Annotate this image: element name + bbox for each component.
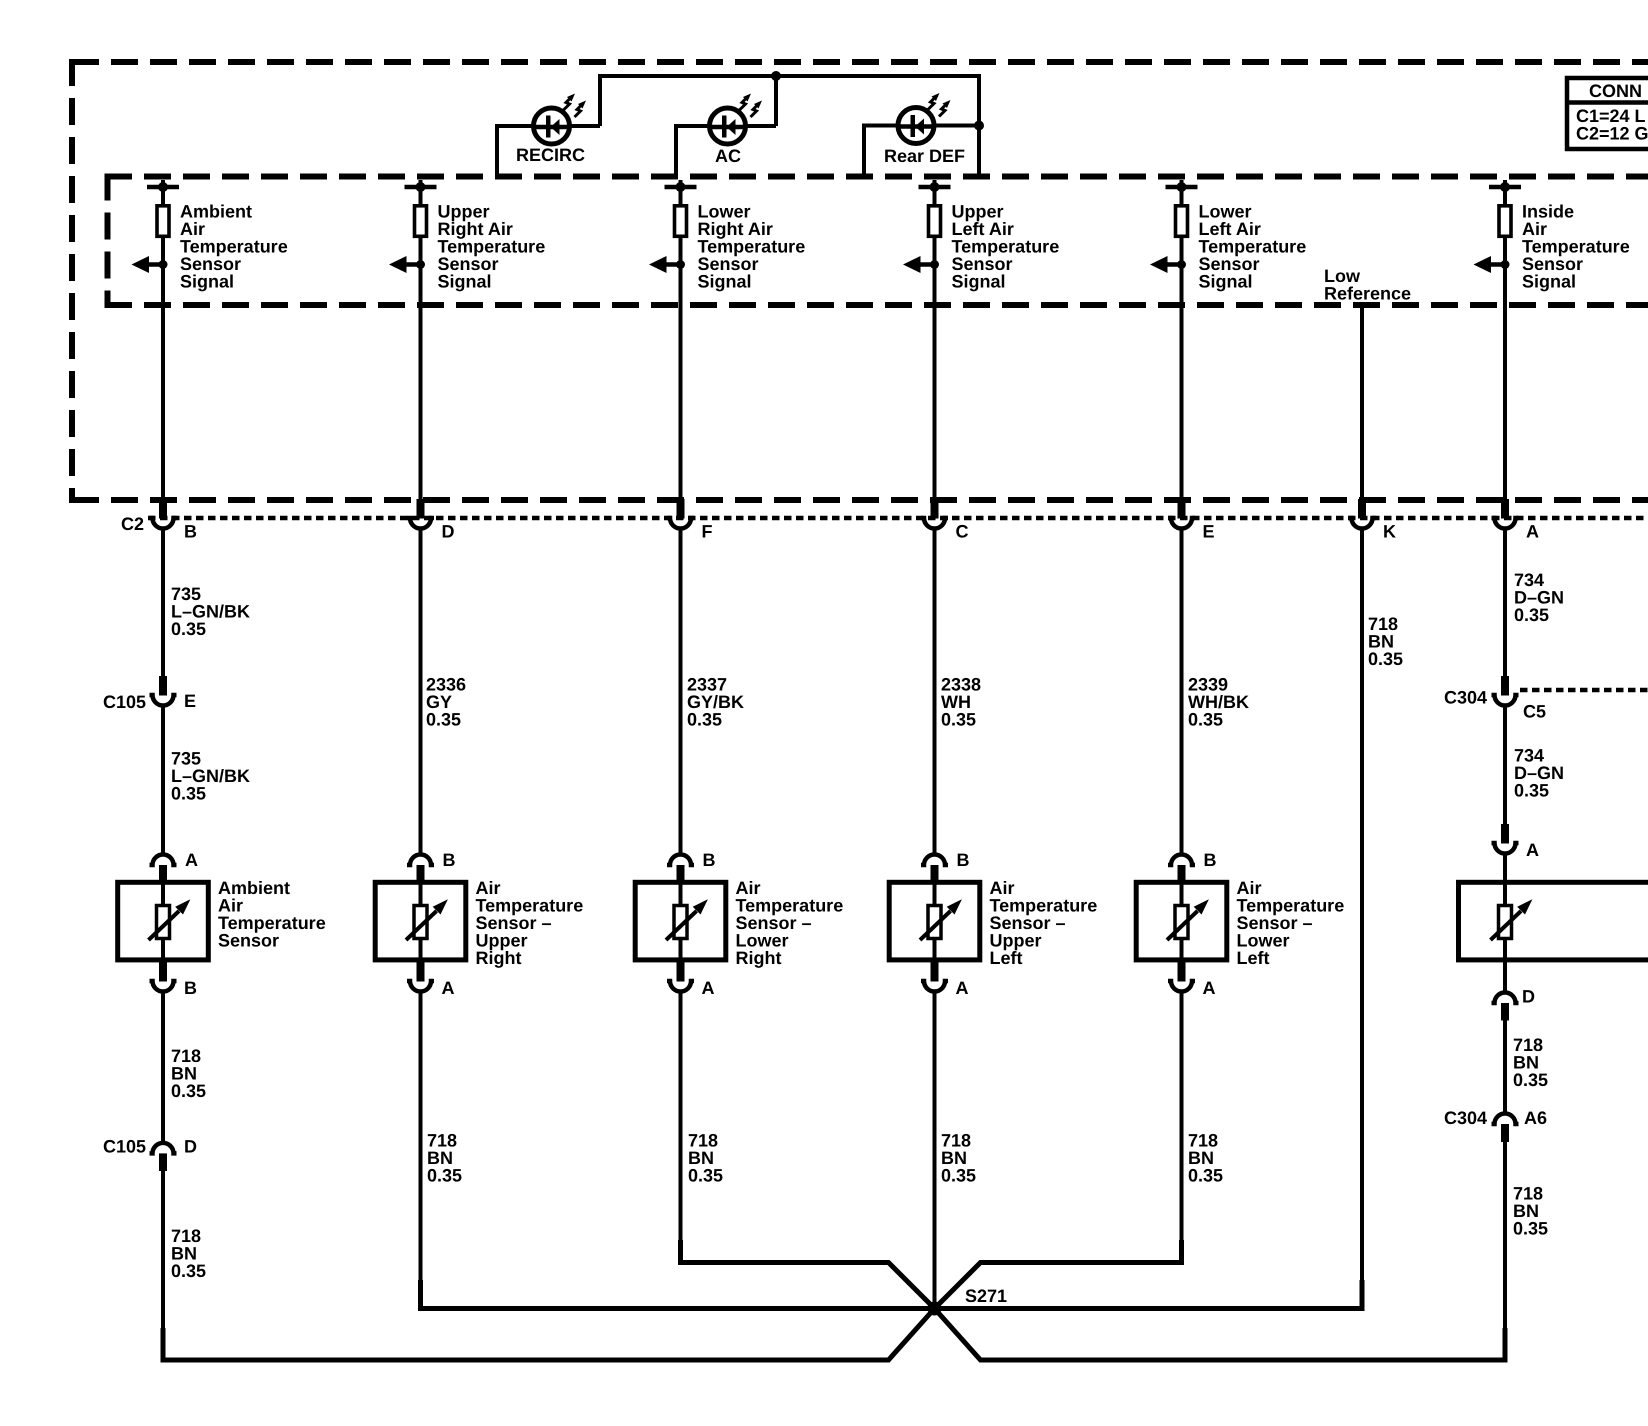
- label Ambient Air Temperature Sensor: [218, 878, 326, 951]
- svg-text:A: A: [1203, 978, 1216, 998]
- connector sensor pin B female: [921, 855, 948, 866]
- connector sensor pin A male (bottom): [677, 960, 685, 982]
- wire: [419, 186, 423, 206]
- label wire 718 BN 0.35: [427, 1131, 462, 1186]
- svg-text:Signal: Signal: [180, 272, 234, 292]
- wire inside box: [419, 884, 423, 904]
- wire: [419, 238, 423, 500]
- connector C2 pin E female: [1168, 518, 1195, 529]
- wire Rear DEF drop: [862, 124, 866, 177]
- svg-text:C5: C5: [1523, 702, 1546, 722]
- svg-text:B: B: [184, 978, 197, 998]
- svg-text:Reference: Reference: [1324, 284, 1411, 304]
- label wire 2338 WH 0.35: [941, 675, 981, 730]
- inner dashed box bottom: [105, 302, 1648, 308]
- node Upper Right Air Temperature Sensor Signal tick: [405, 180, 437, 192]
- resistor Upper Right Air Temperature Sensor Signal: [415, 206, 427, 237]
- sensor box Air Temperature Sensor - Lower Left: [1136, 882, 1227, 960]
- wire 718 segment: [161, 1171, 165, 1330]
- svg-text:B: B: [957, 850, 970, 870]
- svg-text:0.35: 0.35: [941, 1166, 976, 1186]
- connector sensor pin B male: [931, 865, 939, 882]
- sensor box Air Temperature Sensor - Upper Right: [375, 882, 466, 960]
- svg-text:0.35: 0.35: [426, 710, 461, 730]
- variable resistor Air Temperature Sensor - Lower Left: [1167, 899, 1209, 940]
- variable resistor Ambient Air Temperature Sensor: [149, 899, 191, 940]
- svg-text:B: B: [443, 850, 456, 870]
- wire Inside sensor to S271: [935, 1309, 1506, 1361]
- wire inside box: [1180, 884, 1184, 904]
- connector sensor pin B male: [677, 865, 685, 882]
- arrow Upper Right Air Temperature Sensor Signal: [389, 256, 425, 273]
- svg-text:C105: C105: [103, 692, 146, 712]
- variable resistor Air Temperature Sensor - Upper Left: [920, 899, 962, 940]
- label wire 718 BN 0.35: [1188, 1131, 1223, 1186]
- wire 718 Low Reference segment: [1360, 530, 1364, 1311]
- connector C105 pin E male: [159, 676, 167, 696]
- label Lower Right Air Temperature Sensor Signal: [698, 202, 806, 292]
- svg-text:0.35: 0.35: [171, 1081, 206, 1101]
- resistor Upper Left Air Temperature Sensor Signal: [929, 206, 941, 237]
- sensor box Inside Air Temperature Sensor: [1459, 882, 1648, 960]
- connector C2 pin K male: [1358, 499, 1366, 519]
- svg-text:Signal: Signal: [952, 272, 1006, 292]
- wire 734 segment: [1503, 530, 1507, 677]
- connector sensor pin A male (bottom): [1178, 960, 1186, 982]
- svg-text:0.35: 0.35: [171, 784, 206, 804]
- wire inside box: [161, 940, 165, 960]
- connector C304 dotted line: [1520, 688, 1648, 693]
- label wire 718 BN 0.35: [1513, 1035, 1548, 1090]
- svg-text:A: A: [185, 850, 198, 870]
- label Air Temperature Sensor - Upper Right: [476, 878, 584, 968]
- svg-text:S271: S271: [965, 1286, 1007, 1306]
- svg-text:B: B: [703, 850, 716, 870]
- wire RECIRC drop: [495, 124, 499, 176]
- connector sensor pin A female: [150, 855, 177, 866]
- svg-text:F: F: [702, 522, 713, 542]
- LED indicator AC: [710, 94, 763, 145]
- wire 718 segment: [933, 993, 937, 1309]
- CONN table divider: [1567, 100, 1648, 105]
- label Air Temperature Sensor - Upper Left: [990, 878, 1098, 968]
- connector C2 pin A female: [1492, 518, 1519, 529]
- connector C2 pin C male: [931, 499, 939, 519]
- svg-text:B: B: [184, 522, 197, 542]
- connector sensor pin B female (bottom): [150, 981, 177, 992]
- svg-text:0.35: 0.35: [688, 1166, 723, 1186]
- label wire 718 BN 0.35 (body side): [1513, 1184, 1548, 1239]
- wire Lower Right sensor to S271: [681, 1240, 935, 1309]
- connector C2 pin F female: [667, 518, 694, 529]
- wire RECIRC riser: [598, 74, 602, 126]
- connector C2 dotted line: [148, 516, 1648, 521]
- junction top bus / AC: [771, 71, 781, 81]
- wire segment: [419, 530, 423, 854]
- arrow Inside Air Temperature Sensor Signal: [1474, 256, 1510, 273]
- svg-text:Signal: Signal: [1199, 272, 1253, 292]
- sensor box Ambient Air Temperature Sensor: [118, 882, 209, 960]
- label Lower Left Air Temperature Sensor Signal: [1199, 202, 1307, 292]
- wire segment: [679, 530, 683, 854]
- inner dashed box top: [105, 174, 1648, 180]
- svg-text:E: E: [1203, 522, 1215, 542]
- wire AC right: [745, 124, 777, 128]
- wire 735 segment: [161, 530, 165, 677]
- wire into inside sensor: [1503, 855, 1507, 883]
- svg-text:0.35: 0.35: [687, 710, 722, 730]
- wire 718 segment: [1503, 1142, 1507, 1330]
- resistor Inside Air Temperature Sensor Signal: [1499, 206, 1511, 237]
- connector sensor pin A male (bottom): [931, 960, 939, 982]
- wire Low Reference: [1360, 305, 1364, 500]
- wire Rear DEF riser: [977, 74, 981, 176]
- svg-text:D: D: [184, 1137, 197, 1157]
- connector sensor pin B male: [417, 865, 425, 882]
- svg-text:0.35: 0.35: [1188, 1166, 1223, 1186]
- svg-text:0.35: 0.35: [1513, 1070, 1548, 1090]
- wire Upper Right sensor to S271: [421, 1280, 935, 1309]
- svg-text:A: A: [1526, 840, 1539, 860]
- connector C2 pin C female: [921, 518, 948, 529]
- svg-text:Left: Left: [1237, 948, 1270, 968]
- variable resistor Air Temperature Sensor - Upper Right: [406, 899, 448, 940]
- wire: [161, 238, 165, 500]
- svg-text:AC: AC: [715, 146, 741, 166]
- wire RECIRC right: [569, 124, 601, 128]
- label wire 735 L-GN/BK 0.35 (engine side): [171, 749, 250, 804]
- wire inside box: [1503, 940, 1507, 960]
- svg-text:0.35: 0.35: [171, 1261, 206, 1281]
- arrow Lower Right Air Temperature Sensor Signal: [649, 256, 685, 273]
- label Upper Left Air Temperature Sensor Signal: [952, 202, 1060, 292]
- wire inside box: [161, 884, 165, 904]
- resistor Ambient Air Temperature Sensor Signal: [157, 206, 169, 237]
- svg-text:Right: Right: [476, 948, 522, 968]
- connector C2 pin K female: [1349, 518, 1376, 529]
- wire Ambient sensor to S271: [163, 1309, 935, 1361]
- arrow Lower Left Air Temperature Sensor Signal: [1150, 256, 1186, 273]
- CONN table box: [1567, 78, 1648, 149]
- label Low Reference: [1324, 266, 1411, 304]
- resistor Lower Right Air Temperature Sensor Signal: [675, 206, 687, 237]
- wire 718 segment: [161, 993, 165, 1143]
- svg-text:A: A: [956, 978, 969, 998]
- connector C2 pin A male: [1501, 499, 1509, 519]
- variable resistor Inside Air Temperature Sensor: [1491, 899, 1533, 940]
- svg-text:C2=12 G: C2=12 G: [1576, 124, 1648, 144]
- svg-text:0.35: 0.35: [1514, 605, 1549, 625]
- svg-text:B: B: [1204, 850, 1217, 870]
- wire 735 segment 2: [161, 707, 165, 854]
- wire 718 segment: [1180, 993, 1184, 1265]
- wire: [933, 186, 937, 206]
- svg-text:Sensor: Sensor: [218, 931, 279, 951]
- sensor box Air Temperature Sensor - Upper Left: [889, 882, 980, 960]
- svg-text:0.35: 0.35: [1368, 649, 1403, 669]
- connector C105 pin D male: [159, 1153, 167, 1171]
- svg-text:K: K: [1383, 522, 1396, 542]
- label Ambient Air Temperature Sensor Signal: [180, 202, 288, 292]
- wire 734 segment 2: [1503, 707, 1507, 825]
- wire 718 segment: [419, 993, 423, 1311]
- connector sensor pin B male: [1178, 865, 1186, 882]
- LED indicator RECIRC: [534, 94, 587, 145]
- svg-text:A: A: [702, 978, 715, 998]
- label wire 734 D-GN 0.35 (body side): [1514, 746, 1564, 801]
- connector sensor pin A female (inside sensor): [1492, 843, 1519, 854]
- control module dashed box bottom: [72, 497, 1648, 503]
- connector C2 pin F male: [677, 499, 685, 519]
- connector C304 pin A6 female: [1492, 1114, 1519, 1125]
- svg-text:C2: C2: [121, 514, 144, 534]
- node Inside Air Temperature Sensor Signal tick: [1489, 180, 1521, 192]
- wire Rear DEF left: [864, 124, 899, 128]
- svg-text:CONN: CONN: [1589, 81, 1642, 101]
- label wire 734 D-GN 0.35: [1514, 570, 1564, 625]
- svg-text:A6: A6: [1524, 1108, 1547, 1128]
- label Air Temperature Sensor - Lower Left: [1237, 878, 1345, 968]
- label wire 718 BN 0.35: [941, 1131, 976, 1186]
- svg-text:0.35: 0.35: [1514, 781, 1549, 801]
- wire segment: [1180, 530, 1184, 854]
- wire inside box: [1503, 884, 1507, 904]
- svg-text:C304: C304: [1444, 688, 1487, 708]
- variable resistor Air Temperature Sensor - Lower Right: [666, 899, 708, 940]
- svg-text:E: E: [184, 691, 196, 711]
- svg-text:Signal: Signal: [438, 272, 492, 292]
- connector sensor pin B female: [407, 855, 434, 866]
- svg-text:Right: Right: [736, 948, 782, 968]
- label wire 718 BN 0.35 (engine side): [171, 1226, 206, 1281]
- wire: [679, 186, 683, 206]
- wire Rear DEF right: [933, 124, 979, 128]
- label wire 2337 GY/BK 0.35: [687, 675, 744, 730]
- wire AC riser: [774, 74, 778, 126]
- node Upper Left Air Temperature Sensor Signal tick: [919, 180, 951, 192]
- node Ambient Air Temperature Sensor Signal tick: [147, 180, 179, 192]
- label wire 2336 GY 0.35: [426, 675, 466, 730]
- wire AC drop: [674, 124, 678, 176]
- connector C105 pin E female: [150, 695, 177, 706]
- connector sensor pin A male (inside sensor): [1501, 824, 1509, 844]
- connector sensor pin B female: [667, 855, 694, 866]
- wire: [1503, 238, 1507, 500]
- label wire 2339 WH/BK 0.35: [1188, 675, 1249, 730]
- wire AC left: [676, 124, 711, 128]
- svg-text:A: A: [1526, 522, 1539, 542]
- wire inside box: [419, 940, 423, 960]
- label Upper Right Air Temperature Sensor Signal: [438, 202, 546, 292]
- svg-text:Signal: Signal: [1522, 272, 1576, 292]
- svg-text:0.35: 0.35: [427, 1166, 462, 1186]
- label Air Temperature Sensor - Lower Right: [736, 878, 844, 968]
- svg-text:Signal: Signal: [698, 272, 752, 292]
- wire inside box: [933, 884, 937, 904]
- svg-text:C: C: [956, 522, 969, 542]
- wire: [933, 238, 937, 500]
- connector C304 pin A6 male: [1501, 1124, 1509, 1142]
- wire below inside sensor: [1503, 960, 1507, 992]
- inner dashed box left: [105, 174, 111, 309]
- wire top bus: [600, 74, 979, 78]
- wire Low Reference to S271: [935, 1280, 1363, 1309]
- connector C2 pin E male: [1178, 499, 1186, 519]
- label wire 735 L-GN/BK 0.35: [171, 584, 250, 639]
- svg-text:0.35: 0.35: [1188, 710, 1223, 730]
- connector sensor pin A female (bottom): [407, 981, 434, 992]
- arrow Ambient Air Temperature Sensor Signal: [132, 256, 168, 273]
- svg-text:D: D: [1522, 987, 1535, 1007]
- wire 718 segment: [679, 993, 683, 1265]
- svg-text:C304: C304: [1444, 1108, 1487, 1128]
- connector sensor pin A male: [159, 865, 167, 882]
- connector C105 pin D female: [150, 1143, 177, 1154]
- label wire 718 BN 0.35 (Low Reference): [1368, 614, 1403, 669]
- connector sensor pin A female (bottom): [667, 981, 694, 992]
- control module dashed box top: [72, 59, 1648, 65]
- resistor Lower Left Air Temperature Sensor Signal: [1176, 206, 1188, 237]
- wire inside box: [679, 940, 683, 960]
- connector C304 pin C5 female: [1492, 695, 1519, 706]
- svg-text:A: A: [442, 978, 455, 998]
- connector sensor pin D female (inside sensor): [1492, 993, 1519, 1004]
- label Inside Air Temperature Sensor Signal: [1522, 202, 1630, 292]
- svg-text:0.35: 0.35: [171, 619, 206, 639]
- connector C2 pin B male: [159, 499, 167, 519]
- splice S271: [928, 1302, 942, 1316]
- svg-text:0.35: 0.35: [941, 710, 976, 730]
- connector C2 pin B female: [150, 518, 177, 529]
- connector sensor pin B male (bottom): [159, 960, 167, 982]
- node Lower Left Air Temperature Sensor Signal tick: [1166, 180, 1198, 192]
- wire Lower Left sensor to S271: [935, 1240, 1182, 1309]
- connector C2 pin D male: [417, 499, 425, 519]
- svg-text:RECIRC: RECIRC: [516, 145, 585, 165]
- connector sensor pin A female (bottom): [1168, 981, 1195, 992]
- junction Rear DEF right: [974, 121, 984, 131]
- label wire 718 BN 0.35: [688, 1131, 723, 1186]
- connector sensor pin A male (bottom): [417, 960, 425, 982]
- connector sensor pin D male (inside sensor): [1501, 1003, 1509, 1021]
- wire inside box: [1180, 940, 1184, 960]
- LED indicator Rear DEF: [898, 93, 951, 144]
- wire 718 segment: [1503, 1020, 1507, 1113]
- arrow Upper Left Air Temperature Sensor Signal: [903, 256, 939, 273]
- wire: [1503, 186, 1507, 206]
- control module dashed box left: [69, 59, 75, 503]
- wire inside box: [933, 940, 937, 960]
- node Lower Right Air Temperature Sensor Signal tick: [665, 180, 697, 192]
- connector sensor pin A female (bottom): [921, 981, 948, 992]
- wire: [161, 186, 165, 206]
- svg-text:C105: C105: [103, 1137, 146, 1157]
- connector C304 pin C5 male: [1501, 676, 1509, 696]
- wire segment: [933, 530, 937, 854]
- svg-text:Left: Left: [990, 948, 1023, 968]
- svg-text:Rear DEF: Rear DEF: [884, 146, 965, 166]
- svg-text:D: D: [442, 522, 455, 542]
- svg-text:0.35: 0.35: [1513, 1219, 1548, 1239]
- connector sensor pin B female: [1168, 855, 1195, 866]
- wire RECIRC left: [497, 124, 535, 128]
- wire: [679, 238, 683, 500]
- connector C2 pin D female: [407, 518, 434, 529]
- wire: [1180, 238, 1184, 500]
- label wire 718 BN 0.35: [171, 1046, 206, 1101]
- wire: [1180, 186, 1184, 206]
- sensor box Air Temperature Sensor - Lower Right: [635, 882, 726, 960]
- wire inside box: [679, 884, 683, 904]
